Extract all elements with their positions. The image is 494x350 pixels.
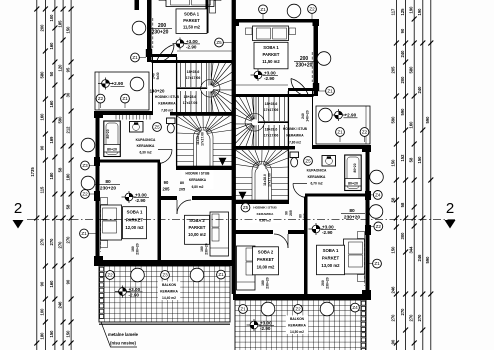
svg-text:Z5: Z5	[305, 159, 311, 164]
svg-text:590: 590	[425, 256, 430, 264]
level marker top-right room	[251, 69, 279, 81]
svg-text:230+20: 230+20	[326, 277, 330, 289]
svg-text:11,50 m2: 11,50 m2	[183, 25, 201, 30]
svg-text:17x17.06: 17x17.06	[183, 101, 198, 105]
svg-text:344: 344	[408, 246, 413, 254]
svg-text:BALKON: BALKON	[290, 317, 305, 321]
svg-text:246: 246	[57, 301, 62, 309]
level marker room1 left	[122, 191, 150, 203]
svg-text:1735: 1735	[30, 167, 35, 177]
svg-text:140+20: 140+20	[306, 110, 310, 122]
level marker balcony right	[247, 319, 275, 331]
svg-text:90: 90	[40, 145, 45, 150]
svg-text:185: 185	[57, 20, 62, 28]
svg-text:58: 58	[57, 167, 62, 172]
svg-text:205: 205	[179, 188, 185, 192]
svg-text:80: 80	[180, 181, 184, 185]
svg-text:PARKET: PARKET	[126, 217, 144, 222]
bed top room left	[159, 0, 221, 7]
svg-text:17x17.06: 17x17.06	[186, 76, 201, 80]
svg-text:590: 590	[425, 116, 430, 124]
svg-text:200: 200	[40, 24, 45, 32]
marker Z1 at 221,274.6	[217, 270, 226, 279]
svg-text:205: 205	[289, 210, 293, 216]
svg-text:150: 150	[417, 156, 422, 164]
svg-text:Z2: Z2	[98, 96, 104, 101]
room label soba1 top right	[254, 42, 288, 69]
svg-text:58: 58	[391, 197, 396, 202]
room label hodnik upper right	[283, 127, 308, 144]
svg-text:Z1: Z1	[327, 89, 333, 94]
svg-text:58: 58	[408, 157, 413, 162]
svg-text:PARKET: PARKET	[322, 256, 340, 261]
svg-text:169: 169	[49, 136, 54, 144]
svg-text:230+20: 230+20	[205, 243, 209, 255]
wall stub top-left (left unit only)	[135, 0, 140, 10]
svg-text:140+20: 140+20	[150, 89, 165, 94]
svg-text:Z1: Z1	[132, 55, 138, 60]
door room1 opening	[158, 167, 160, 186]
svg-text:-2.90: -2.90	[186, 45, 197, 50]
svg-text:18+28.6: 18+28.6	[187, 70, 200, 74]
svg-text:Z2: Z2	[295, 307, 301, 312]
svg-text:Z3: Z3	[162, 273, 168, 278]
svg-text:-2.90: -2.90	[264, 76, 275, 81]
svg-text:SOBA 2: SOBA 2	[189, 218, 205, 223]
stairs treads upper	[177, 63, 232, 112]
svg-text:HODNIK I STUB: HODNIK I STUB	[186, 172, 211, 176]
unit left geometry	[94, 0, 232, 324]
svg-text:150: 150	[65, 26, 70, 34]
svg-text:150: 150	[391, 159, 396, 167]
svg-text:+3.00: +3.00	[264, 70, 276, 75]
svg-text:270: 270	[391, 314, 396, 322]
window left room1	[96, 205, 98, 252]
svg-text:160: 160	[408, 121, 413, 129]
svg-text:300: 300	[400, 232, 405, 240]
svg-text:580: 580	[408, 66, 413, 74]
svg-text:Z2: Z2	[362, 130, 368, 135]
dimension chain left	[30, 0, 73, 350]
svg-text:180: 180	[40, 332, 45, 340]
room label kupaonica right	[307, 169, 327, 186]
svg-text:Z2: Z2	[309, 7, 315, 12]
svg-text:590: 590	[57, 116, 62, 124]
stair text right lower	[264, 128, 279, 138]
svg-text:KUPAONICA: KUPAONICA	[307, 169, 327, 173]
svg-text:18+28.6: 18+28.6	[265, 128, 278, 132]
svg-text:Z1: Z1	[337, 130, 343, 135]
svg-text:180: 180	[200, 246, 204, 252]
svg-text:125: 125	[400, 8, 405, 16]
svg-text:-2.90: -2.90	[135, 198, 146, 203]
room label soba1 lower right	[317, 245, 345, 275]
svg-text:Z1: Z1	[260, 7, 266, 12]
svg-text:270: 270	[57, 241, 62, 249]
dim bathtub left label	[104, 129, 120, 152]
svg-text:PARKET: PARKET	[189, 225, 206, 230]
svg-text:HODNIK I STUB: HODNIK I STUB	[253, 206, 277, 210]
svg-text:Z1: Z1	[122, 96, 128, 101]
level marker entry right	[331, 109, 358, 121]
svg-text:50: 50	[49, 71, 54, 76]
level marker entry left	[98, 78, 125, 90]
door bath arc	[158, 150, 172, 164]
svg-text:160: 160	[49, 100, 54, 108]
marker Z2 at 378.3,226.4	[366, 222, 383, 231]
svg-text:13,00 m2: 13,00 m2	[321, 263, 340, 268]
svg-text:PARKET: PARKET	[263, 52, 280, 57]
svg-text:+2.90: +2.90	[345, 112, 357, 117]
svg-text:BALKON: BALKON	[162, 283, 177, 287]
svg-text:80+20: 80+20	[106, 129, 110, 138]
svg-text:12,00 m2: 12,00 m2	[125, 225, 144, 230]
marker Z2 at 110,275	[106, 271, 115, 280]
svg-text:11x28.0: 11x28.0	[196, 133, 200, 145]
svg-text:180: 180	[65, 173, 70, 181]
svg-text:120: 120	[57, 64, 62, 72]
column circles	[132, 21, 146, 35]
svg-text:200: 200	[321, 280, 325, 286]
svg-text:14,40 m2: 14,40 m2	[162, 296, 176, 300]
room label balkon right	[286, 316, 308, 335]
marker Z4 at 377.8,194.9	[366, 191, 382, 200]
svg-text:90: 90	[40, 281, 45, 286]
balcony tile grid	[99, 266, 230, 322]
svg-text:270: 270	[400, 308, 405, 316]
svg-text:11,50 m2: 11,50 m2	[262, 59, 280, 64]
svg-text:80+20: 80+20	[348, 182, 358, 186]
level marker balcony left	[115, 286, 143, 298]
svg-text:90: 90	[65, 279, 70, 284]
section marker 2 right	[445, 200, 456, 229]
svg-text:200: 200	[158, 23, 167, 29]
svg-text:Z3: Z3	[82, 163, 88, 168]
svg-text:Z4: Z4	[375, 193, 381, 198]
svg-text:240: 240	[417, 86, 422, 94]
svg-text:KUPAONICA: KUPAONICA	[136, 138, 156, 142]
bed room2	[210, 212, 229, 256]
stairs fan	[201, 63, 233, 112]
level marker right side	[309, 223, 337, 235]
svg-text:+3.00: +3.00	[322, 224, 334, 229]
room label hodnik lower right	[250, 204, 281, 223]
window left upper	[152, 18, 154, 48]
marker Z5 at 245.5,207.5	[241, 203, 250, 212]
wall bath top	[95, 111, 153, 115]
marker Z2 at 100.5,98.6	[96, 94, 105, 108]
marker Z1 at 84,233.5	[80, 229, 96, 238]
svg-text:17x17.00: 17x17.00	[268, 173, 272, 187]
unit right geometry (mirrored)	[233, 19, 371, 350]
svg-text:80: 80	[349, 208, 355, 214]
svg-text:80: 80	[299, 214, 303, 218]
svg-text:Z2: Z2	[376, 224, 382, 229]
svg-text:270: 270	[49, 238, 54, 246]
marker Z1 at 135,57.5	[131, 53, 146, 62]
svg-text:KERAMIKA: KERAMIKA	[158, 102, 176, 106]
svg-text:Z1: Z1	[218, 272, 224, 277]
svg-text:Z5: Z5	[154, 125, 160, 130]
svg-text:18+28.6: 18+28.6	[265, 102, 278, 106]
svg-text:Z2: Z2	[82, 192, 88, 197]
balcony slab	[99, 266, 230, 322]
wardrobe top room left	[206, 0, 209, 33]
svg-text:+3.00: +3.00	[186, 39, 198, 44]
svg-text:18+28.6: 18+28.6	[184, 95, 197, 99]
svg-text:KERAMIKA: KERAMIKA	[257, 212, 274, 216]
svg-text:190: 190	[417, 8, 422, 16]
svg-text:160: 160	[49, 42, 54, 50]
svg-text:240: 240	[301, 113, 305, 119]
svg-text:152: 152	[400, 154, 405, 162]
marker Z1 at 340,132	[336, 128, 345, 142]
svg-text:+3.00: +3.00	[129, 287, 141, 292]
svg-text:+2.90: +2.90	[112, 81, 124, 86]
svg-text:160: 160	[49, 280, 54, 288]
svg-text:SOBA 1: SOBA 1	[127, 210, 143, 215]
level marker top-left room	[173, 38, 201, 50]
svg-text:Z5: Z5	[243, 205, 249, 210]
stair text left lower	[183, 95, 198, 105]
room label balkon left	[158, 282, 180, 301]
balcony lamele squares	[100, 267, 104, 318]
svg-text:115: 115	[40, 186, 45, 193]
svg-text:11x28.0: 11x28.0	[263, 174, 267, 186]
marker Z1 at 377,263.6	[366, 259, 381, 268]
svg-text:2: 2	[446, 200, 454, 217]
marker Z5 at 157,127	[153, 123, 162, 132]
svg-text:230+20: 230+20	[296, 63, 313, 69]
svg-text:SOBA 2: SOBA 2	[258, 250, 274, 255]
marker Z1 at 330,91	[318, 87, 334, 96]
svg-text:SOBA 1: SOBA 1	[184, 12, 200, 17]
marker Z2 at 364.5,132	[360, 128, 369, 142]
svg-text:2: 2	[14, 200, 22, 217]
svg-text:10,00 m2: 10,00 m2	[257, 265, 275, 270]
svg-text:Z4: Z4	[352, 305, 358, 310]
svg-text:SOBA 1: SOBA 1	[323, 248, 339, 253]
marker Z1 at 125,98.6	[121, 94, 130, 108]
svg-text:190: 190	[408, 6, 413, 14]
svg-text:240: 240	[400, 50, 405, 58]
svg-text:246: 246	[391, 286, 396, 294]
dimension chain right	[391, 0, 434, 350]
svg-text:metalne lamele: metalne lamele	[108, 332, 139, 337]
svg-text:240: 240	[152, 73, 156, 79]
wall hall divider	[152, 54, 178, 57]
svg-text:6,80 m2: 6,80 m2	[192, 185, 204, 189]
svg-text:230+20: 230+20	[136, 243, 140, 255]
svg-text:590: 590	[391, 116, 396, 124]
sink	[130, 122, 144, 133]
svg-text:-2.90: -2.90	[260, 326, 271, 331]
svg-text:90: 90	[391, 339, 396, 344]
marker Z1 at 263,9.3	[259, 5, 268, 19]
svg-text:KERAMIKA: KERAMIKA	[288, 323, 306, 327]
svg-text:80: 80	[105, 179, 111, 185]
wall room2 top	[160, 196, 177, 200]
svg-text:160: 160	[40, 113, 45, 121]
dim bathtub right label	[345, 163, 361, 186]
wall stair bottom	[176, 166, 232, 170]
svg-text:Z5: Z5	[216, 40, 222, 45]
svg-text:(nisu nosive): (nisu nosive)	[110, 341, 136, 346]
marker Z5 at 219,42.5	[215, 38, 232, 47]
svg-text:17x17.00: 17x17.00	[201, 132, 205, 146]
marker Z5 at 308,161	[304, 157, 313, 166]
window bottom room1	[105, 261, 151, 263]
window bottom room2	[166, 261, 222, 263]
stair text right upper	[264, 102, 279, 112]
svg-text:KERAMIKA: KERAMIKA	[286, 134, 304, 138]
marker Z2 at 312,9	[308, 5, 317, 19]
wall left lower	[96, 111, 100, 266]
svg-text:117: 117	[391, 8, 396, 15]
svg-text:7,80 m2: 7,80 m2	[161, 108, 173, 112]
svg-text:180: 180	[261, 280, 265, 286]
svg-text:30: 30	[65, 92, 70, 97]
svg-text:KERAMIKA: KERAMIKA	[137, 144, 155, 148]
svg-text:14,50 m2: 14,50 m2	[290, 330, 304, 334]
section marker 2 left	[13, 200, 24, 229]
svg-text:95: 95	[65, 67, 70, 72]
svg-text:80+20: 80+20	[353, 163, 357, 172]
svg-text:-2.90: -2.90	[322, 230, 333, 235]
svg-text:150: 150	[49, 330, 54, 338]
entry platform	[95, 72, 149, 110]
svg-text:HODNIK I STUB: HODNIK I STUB	[283, 127, 308, 131]
svg-text:270: 270	[408, 314, 413, 322]
svg-text:90: 90	[400, 28, 405, 33]
svg-text:KERAMIKA: KERAMIKA	[308, 175, 326, 179]
svg-text:KERAMIKA: KERAMIKA	[189, 178, 207, 182]
svg-text:80+20: 80+20	[107, 148, 117, 152]
stripes under bath wall left	[116, 115, 150, 120]
svg-text:HODNIK I STUB: HODNIK I STUB	[155, 95, 180, 99]
svg-text:270: 270	[65, 236, 70, 244]
svg-text:58: 58	[400, 202, 405, 207]
svg-text:PARKET: PARKET	[257, 257, 274, 262]
wall bath bottom	[97, 160, 160, 163]
section cut line 2-2	[27, 218, 455, 220]
room label soba1 lower left	[123, 207, 147, 239]
wall left upper	[147, 0, 152, 62]
toilet	[167, 118, 176, 124]
svg-text:90: 90	[164, 180, 169, 185]
wall bottom exterior	[95, 260, 232, 266]
marker Z2 at 298,309	[294, 305, 303, 314]
svg-text:246: 246	[417, 254, 422, 262]
room label hodnik upper left	[155, 95, 180, 112]
marker Z4 at 355,307.6	[351, 303, 360, 312]
svg-text:10,00 m2: 10,00 m2	[188, 232, 206, 237]
bathtub	[104, 121, 121, 157]
room label soba1 top left	[176, 9, 207, 34]
stairs winder	[177, 116, 232, 167]
svg-text:230+20: 230+20	[152, 30, 169, 36]
svg-text:KERAMIKA: KERAMIKA	[160, 289, 178, 293]
svg-text:17x17.06: 17x17.06	[264, 133, 279, 137]
svg-text:270: 270	[417, 314, 422, 322]
svg-text:SOBA 1: SOBA 1	[263, 45, 279, 50]
marker Z1 at 243,309	[239, 305, 248, 314]
svg-text:+3.00: +3.00	[135, 192, 147, 197]
room label soba2 left	[185, 215, 210, 244]
svg-text:90: 90	[285, 211, 289, 215]
svg-text:PARKET: PARKET	[183, 18, 200, 23]
svg-text:Z1: Z1	[374, 261, 380, 266]
bed room1	[101, 198, 122, 248]
svg-text:150: 150	[65, 330, 70, 338]
svg-text:180: 180	[131, 246, 135, 252]
svg-text:590: 590	[400, 108, 405, 116]
svg-text:Z2: Z2	[107, 273, 113, 278]
svg-text:100: 100	[49, 14, 54, 22]
svg-text:-2.90: -2.90	[129, 293, 140, 298]
wall stair top	[152, 60, 233, 63]
svg-text:205: 205	[391, 66, 396, 74]
door room2 arc	[177, 200, 191, 214]
svg-text:230+20: 230+20	[266, 277, 270, 289]
bed top room right	[246, 26, 296, 41]
svg-text:230+20: 230+20	[100, 186, 116, 192]
svg-text:Z1: Z1	[240, 307, 246, 312]
svg-text:7,80 m2: 7,80 m2	[289, 140, 301, 144]
door entry arc	[152, 45, 174, 63]
svg-text:580: 580	[40, 71, 45, 79]
room label kupaonica left	[136, 138, 156, 154]
svg-text:200: 200	[300, 56, 309, 62]
marker Z3 at 165,275	[161, 271, 170, 280]
wall party shared	[232, 0, 236, 294]
note metalne lamele	[101, 322, 139, 347]
svg-text:5x30: 5x30	[156, 72, 160, 79]
svg-text:150: 150	[391, 246, 396, 254]
svg-text:+3.00: +3.00	[260, 320, 272, 325]
svg-text:205: 205	[163, 187, 171, 192]
svg-text:Z1: Z1	[81, 231, 87, 236]
stair text left upper	[186, 70, 201, 80]
svg-text:6,70 m2: 6,70 m2	[310, 181, 322, 185]
room label hodnik lower left	[182, 170, 214, 189]
svg-text:100: 100	[40, 308, 45, 316]
svg-text:17x17.06: 17x17.06	[264, 108, 279, 112]
svg-text:180: 180	[49, 172, 54, 180]
wall room divider vertical	[158, 163, 162, 261]
svg-text:6,30 m2: 6,30 m2	[139, 150, 151, 154]
svg-text:205: 205	[303, 213, 307, 219]
wall hall-stair divider	[176, 57, 178, 166]
svg-text:270: 270	[40, 238, 45, 246]
window left bath	[96, 135, 98, 155]
marker Z2 at 85,194	[81, 190, 96, 199]
svg-text:58: 58	[65, 204, 70, 209]
room label soba2 right	[253, 247, 279, 275]
svg-text:212: 212	[65, 126, 70, 134]
svg-text:200: 200	[400, 76, 405, 84]
marker Z3 at 85,165.5	[81, 161, 96, 170]
